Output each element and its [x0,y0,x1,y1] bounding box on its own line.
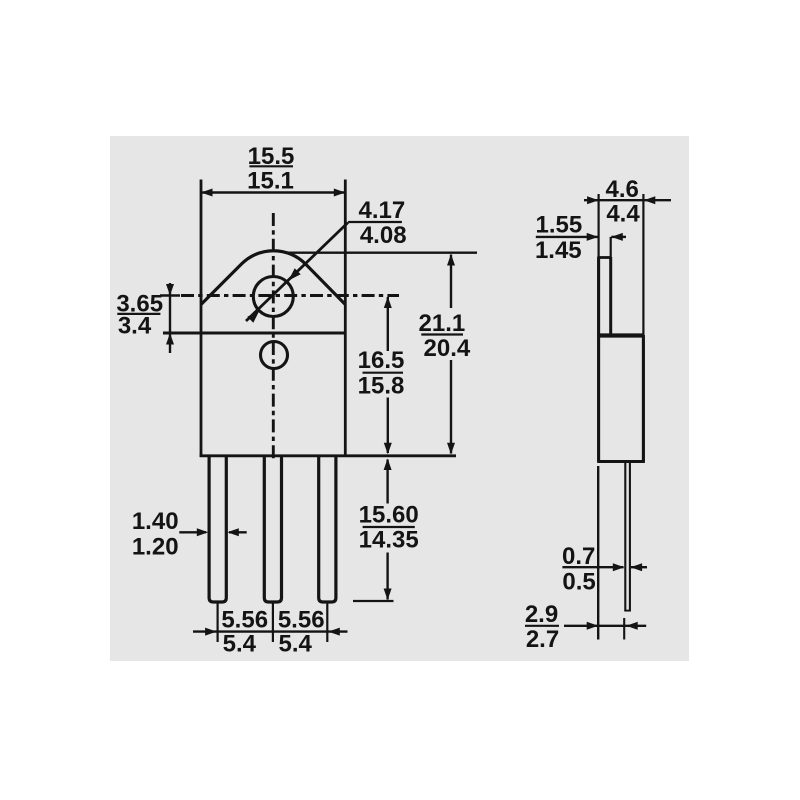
svg-text:15.60: 15.60 [359,502,419,529]
bar 21.1/20.4 [421,333,463,335]
package body right edge + 15.5 extension line [344,180,347,458]
arrow 4.6 left (right-pointing) [587,196,599,204]
bar 4.17/4.08 [348,221,402,223]
dimension 21.1/20.4 line (two segments) [450,255,452,309]
svg-text:0.7: 0.7 [562,543,595,570]
svg-text:1.55: 1.55 [536,212,583,239]
dimension 2.9/2.7 line [564,625,646,627]
arrow 1.55 right (left-pointing) [611,233,623,241]
svg-text:0.5: 0.5 [562,569,595,596]
arrow 15.5 left [201,189,213,197]
arrow hole leader lower (up-right) [247,311,259,323]
arrow 3.65 top (down) [166,284,174,296]
gray drawing panel [110,136,689,661]
vertical centerline (dash-dot) [272,213,275,462]
svg-text:15.5: 15.5 [248,143,295,170]
tab top edge [597,256,611,259]
bar 3.65/3.4 [117,313,160,315]
svg-text:15.8: 15.8 [358,373,405,400]
dimension 15.5/15.1 line [201,191,345,193]
svg-text:5.56: 5.56 [221,607,268,634]
dimension 3.65/3.4 line [169,283,171,353]
horizontal centerline through hole (dash-dot) [181,294,399,297]
pin 2 center extension tick [272,604,274,643]
package shoulder line + 3.65 extension [163,332,347,335]
arrow 15.60 bottom (down) [384,589,392,601]
svg-text:5.4: 5.4 [279,631,313,658]
side left edge: extension + tab/body edge + 2.9 extension [597,194,599,257]
dimension 0.7/0.5 line [562,566,623,568]
arrow 0.7 left (right-pointing) [613,563,625,571]
arrow 15.5 right [334,189,346,197]
arrow 21.1 bottom (down) [447,443,455,455]
arrow 21.1 top (up) [447,254,455,266]
tab right edge + 1.55 extension [610,237,612,257]
svg-text:20.4: 20.4 [424,335,471,362]
svg-text:21.1: 21.1 [419,310,466,337]
arrow 16.5 bottom (down) [384,443,392,455]
dimension 5.56/5.4 line [193,630,348,632]
dimension 1.55/1.45 line [536,236,598,238]
small hole (lower circle) [261,342,288,369]
svg-text:1.45: 1.45 [535,237,582,264]
dimension 1.40/1.20 lines [179,531,206,533]
arrow 15.60 top (up) [384,459,392,471]
arrow 5.56 right (left-pointing) [328,628,340,636]
bar 15.5/15.1 [249,165,293,167]
svg-text:5.56: 5.56 [278,607,325,634]
pin 3 center extension tick [326,604,328,643]
package dome top (slopes + arc) [201,251,345,305]
dimension 15.60/14.35 line (two segments) [386,460,388,504]
svg-text:1.40: 1.40 [132,508,179,535]
svg-text:4.6: 4.6 [606,176,639,203]
svg-text:4.17: 4.17 [359,197,406,224]
mounting hole (big circle) [253,277,293,317]
svg-text:4.08: 4.08 [360,222,407,249]
arrow 1.40 left (right-pointing) [197,528,209,536]
svg-text:2.7: 2.7 [526,626,559,653]
arrow 16.5 top (up) [384,297,392,309]
arrow 1.55 left (right-pointing) [587,233,599,241]
arrow 5.56 left (right-pointing) [205,628,217,636]
package body left edge + 15.5 extension line [200,180,203,458]
svg-text:3.4: 3.4 [118,312,152,339]
middle lead (pin 2) outline [264,456,281,602]
side shoulder thick line [597,333,644,337]
left lead (pin 1) outline [209,456,226,602]
side lead outline [624,463,626,611]
arrow hole leader upper (down-left) [289,268,301,280]
arrowheads [166,189,655,636]
svg-text:15.1: 15.1 [247,168,294,195]
bar 15.60/14.35 [363,526,415,528]
svg-text:16.5: 16.5 [358,347,405,374]
21.1 top extension line [285,251,477,253]
svg-text:1.20: 1.20 [132,534,179,561]
svg-text:4.4: 4.4 [606,201,640,228]
arrow 3.65 bottom (up) [166,333,174,345]
package bottom line + 21.1 extension [200,454,456,457]
dimension 2.9/2.7 fraction bar [525,625,559,627]
arrow 2.9 right (left-pointing) [626,622,638,630]
right lead (pin 3) outline [319,456,336,602]
pin bottom extension line [353,600,394,602]
svg-text:2.9: 2.9 [525,601,558,628]
arrow 4.6 right (left-pointing) [644,196,656,204]
arrow 1.40 right (left-pointing) [227,528,239,536]
svg-text:5.4: 5.4 [223,631,257,658]
svg-text:14.35: 14.35 [359,527,419,554]
pin center tick for 2.9 [623,618,625,640]
dimension 16.5/15.8 line (two segments) [387,297,389,351]
arrow 2.9 left (right-pointing) [587,622,599,630]
hole diameter leader line 4.17 [246,223,348,322]
dimension 4.6/4.4 line [584,199,671,201]
pin 1 center extension tick [217,604,219,643]
side right edge: 4.6 extension + body edge [642,194,644,335]
bar 16.5/15.8 [363,372,404,374]
3.65 extension tick at hole centerline [160,294,180,296]
side body bottom [597,460,645,463]
arrow 0.7 right (left-pointing) [631,563,643,571]
